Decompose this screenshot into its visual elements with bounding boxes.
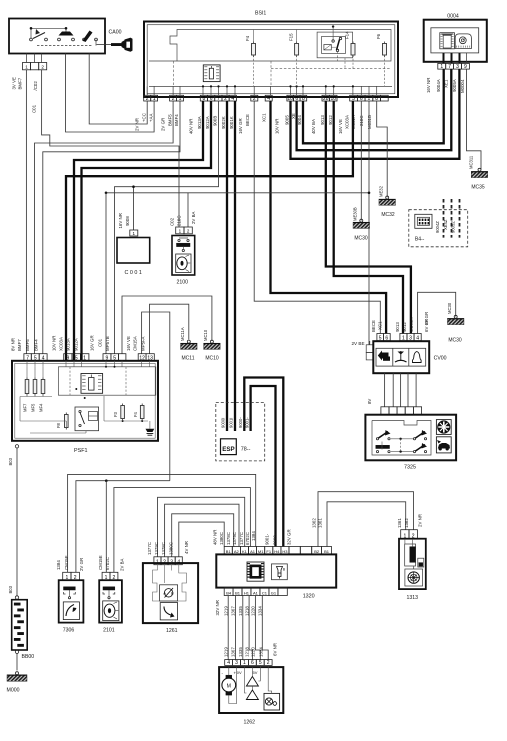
svg-text:16V NR: 16V NR bbox=[426, 78, 431, 93]
wire XE BSI to 0004 bbox=[297, 69, 452, 150]
svg-text:78--: 78-- bbox=[241, 447, 251, 453]
1261 sensor symbol bbox=[160, 585, 178, 601]
svg-text:BMF7: BMF7 bbox=[17, 339, 22, 351]
0004 pins 1 7 3 9 bbox=[438, 63, 446, 69]
svg-text:MC11: MC11 bbox=[182, 356, 195, 362]
PSF1 pins 12 13 bbox=[138, 354, 146, 361]
2100 pins 1 2 bbox=[176, 227, 184, 234]
svg-text:C01: C01 bbox=[98, 338, 103, 347]
BSI1 body outer bbox=[144, 22, 398, 98]
svg-text:9001I: 9001I bbox=[229, 418, 234, 428]
1320 bottom pins B4 B1 H1 A1 C1 G1 bbox=[224, 588, 233, 596]
7306 contact bbox=[64, 587, 76, 590]
svg-text:8V: 8V bbox=[367, 399, 372, 404]
wire 1384 1320-F1 to 7306 bbox=[68, 474, 256, 572]
svg-text:8: 8 bbox=[203, 96, 206, 102]
wire 1379C 1320-K1 to 1261 bbox=[165, 504, 239, 557]
svg-text:6: 6 bbox=[295, 96, 298, 102]
1320 injector icon bbox=[272, 564, 288, 580]
switch unit 7325 body bbox=[365, 415, 456, 461]
svg-text:9012A: 9012A bbox=[205, 116, 210, 129]
svg-text:2: 2 bbox=[267, 660, 270, 666]
svg-text:6: 6 bbox=[210, 96, 213, 102]
1313 pins 1 2 bbox=[401, 530, 409, 539]
wire CM15E branch bbox=[105, 481, 107, 573]
svg-text:1362: 1362 bbox=[312, 518, 317, 528]
wire M0004 to MC35 bbox=[467, 69, 482, 169]
BSI connector icon bbox=[203, 65, 220, 82]
wire BECE BSI to CV00 bbox=[254, 101, 380, 334]
svg-text:ME30B: ME30B bbox=[352, 207, 357, 221]
BSI pin 2 (BECE) bbox=[251, 95, 258, 101]
wire 9012 BSI to CV00 bbox=[334, 101, 403, 334]
7325 inner outline bbox=[372, 421, 431, 456]
svg-text:BMF4: BMF4 bbox=[174, 114, 179, 126]
BSI1 body inner line bbox=[147, 25, 395, 94]
svg-text:MP5FA: MP5FA bbox=[141, 337, 146, 351]
B4 connector icon bbox=[415, 214, 432, 228]
svg-text:210C: 210C bbox=[177, 216, 182, 227]
1262 motor bbox=[222, 678, 236, 692]
wire 1361 1320 to 1313 bbox=[327, 502, 406, 547]
switch link wires bbox=[31, 27, 66, 29]
svg-text:MC35: MC35 bbox=[471, 185, 485, 191]
1262 icon pump bbox=[264, 693, 280, 710]
svg-text:40V NR: 40V NR bbox=[189, 119, 194, 134]
svg-text:9013A: 9013A bbox=[66, 338, 71, 351]
svg-text:MCV0A: MCV0A bbox=[409, 317, 414, 332]
svg-text:32V GR: 32V GR bbox=[287, 529, 292, 545]
svg-text:9004: 9004 bbox=[297, 115, 302, 125]
svg-text:1380C: 1380C bbox=[219, 532, 224, 545]
svg-text:2100: 2100 bbox=[177, 280, 189, 286]
svg-text:9000-: 9000- bbox=[272, 533, 277, 545]
svg-text:1367: 1367 bbox=[231, 606, 236, 616]
BSI1 upper compartment bbox=[149, 30, 391, 62]
1313 gauge circle bbox=[405, 569, 423, 586]
svg-text:16V VE: 16V VE bbox=[126, 336, 131, 351]
svg-text:XC03A: XC03A bbox=[58, 337, 63, 351]
wire 1378C 1320-A2 to 1261 bbox=[172, 514, 234, 557]
svg-text:9005A: 9005A bbox=[452, 79, 457, 92]
connector C02 cells 1-2 bbox=[23, 63, 31, 70]
7306 pins 1 2 bbox=[63, 572, 71, 580]
PSF1 relay bbox=[75, 407, 99, 431]
svg-text:16V VE: 16V VE bbox=[338, 119, 343, 134]
wire 1362 1320 to 1313 bbox=[318, 492, 414, 547]
svg-text:M651B: M651B bbox=[367, 115, 372, 129]
wire 210C net vertical bbox=[368, 101, 370, 345]
svg-text:CV00: CV00 bbox=[434, 356, 447, 362]
svg-text:C02: C02 bbox=[170, 217, 175, 226]
svg-text:1218: 1218 bbox=[244, 647, 249, 657]
1313 resistor bar bbox=[405, 544, 416, 566]
svg-text:7306: 7306 bbox=[63, 628, 75, 634]
wire B03 down bbox=[16, 448, 18, 596]
wire 210C branch to PSF1 C01 and 2100 bbox=[106, 192, 369, 194]
svg-text:1219: 1219 bbox=[223, 606, 228, 616]
svg-text:1334: 1334 bbox=[258, 606, 263, 616]
svg-text:0V: 0V bbox=[237, 670, 242, 675]
svg-text:2: 2 bbox=[253, 96, 256, 102]
svg-text:MF7: MF7 bbox=[22, 403, 27, 412]
svg-text:C1: C1 bbox=[262, 590, 268, 595]
svg-text:7: 7 bbox=[217, 96, 220, 102]
svg-text:MF5: MF5 bbox=[30, 403, 35, 412]
svg-text:5V: 5V bbox=[253, 670, 258, 675]
svg-text:B1: B1 bbox=[235, 590, 241, 595]
battery link BB00 bbox=[12, 600, 28, 650]
svg-text:9000I: 9000I bbox=[221, 418, 226, 428]
svg-text:1379C: 1379C bbox=[232, 532, 237, 545]
wire C02 jog bbox=[42, 70, 179, 227]
wire +CC to CA00 bbox=[89, 54, 147, 125]
wire MC10 net from PSF1 bbox=[122, 296, 212, 354]
wire BMF7 CA00 to PSF1 bbox=[25, 70, 27, 354]
7325 thick bar bbox=[376, 445, 390, 448]
svg-text:2: 2 bbox=[146, 96, 149, 102]
svg-text:MC30: MC30 bbox=[448, 338, 462, 344]
svg-text:+CC: +CC bbox=[141, 113, 146, 122]
svg-text:0004: 0004 bbox=[447, 14, 459, 20]
wire M651B to MC32 bbox=[377, 101, 388, 197]
wire MCV0A CV00 to MC30 bbox=[418, 292, 456, 333]
1261 icon bbox=[160, 603, 177, 620]
wire BB00 to M000 bbox=[16, 654, 18, 671]
7325 icon window bbox=[436, 420, 451, 435]
svg-text:1: 1 bbox=[179, 96, 182, 102]
svg-text:6: 6 bbox=[251, 660, 254, 666]
wire 9002K BSI to ESP bbox=[226, 101, 228, 431]
svg-text:1378C: 1378C bbox=[226, 532, 231, 545]
svg-text:9001-: 9001- bbox=[265, 533, 270, 545]
0004 body bbox=[424, 20, 487, 62]
1320 pins B2 B1 bbox=[312, 547, 322, 555]
svg-text:1218: 1218 bbox=[244, 606, 249, 616]
svg-text:4V NR: 4V NR bbox=[184, 541, 189, 554]
wire MP5FA PSF1 to MC11 bbox=[150, 304, 189, 354]
svg-text:1384: 1384 bbox=[251, 531, 256, 541]
svg-text:2V GR: 2V GR bbox=[79, 558, 84, 571]
svg-text:28: 28 bbox=[323, 96, 329, 102]
svg-text:1377C: 1377C bbox=[239, 532, 244, 545]
svg-text:6V NR: 6V NR bbox=[273, 643, 278, 656]
PSF1 pins 9 5 blank bbox=[103, 354, 111, 361]
ground MC10 bbox=[210, 340, 213, 343]
wire 900B BSI to C001 bbox=[134, 101, 219, 230]
svg-text:9001-: 9001- bbox=[244, 417, 249, 428]
PSF1 connector icon bbox=[81, 374, 103, 394]
wire BMF4 BSI to PSF1 bbox=[43, 101, 180, 354]
svg-text:B03: B03 bbox=[8, 585, 13, 593]
svg-text:BECE: BECE bbox=[371, 320, 376, 332]
svg-text:1220: 1220 bbox=[251, 647, 256, 657]
svg-text:2V BA: 2V BA bbox=[119, 558, 124, 571]
1262 pins 4 3 1 6 5 2 bbox=[225, 660, 233, 666]
svg-text:1313: 1313 bbox=[407, 595, 419, 601]
0004 display icon bbox=[440, 33, 455, 49]
svg-text:F4: F4 bbox=[133, 411, 138, 417]
svg-text:A: A bbox=[163, 591, 166, 596]
svg-text:1220: 1220 bbox=[251, 606, 256, 616]
svg-text:9002K: 9002K bbox=[221, 116, 226, 129]
svg-text:1362: 1362 bbox=[404, 518, 409, 528]
svg-text:MC10: MC10 bbox=[203, 329, 208, 341]
wire to 2100 pin 2 bbox=[187, 193, 189, 227]
svg-text:2V BA: 2V BA bbox=[191, 211, 196, 224]
wire 9005 BSI to 0004 bbox=[291, 69, 460, 159]
BSI pins 2 1 (BMF5 BMF4) bbox=[170, 95, 177, 101]
switch contact 3 bbox=[83, 38, 86, 41]
wire 9001K BSI to ESP bbox=[234, 101, 236, 431]
svg-text:40V BA: 40V BA bbox=[311, 119, 316, 134]
key icon bbox=[97, 44, 112, 46]
ground MC11 bbox=[187, 340, 190, 343]
svg-text:900B: 900B bbox=[213, 116, 218, 126]
svg-text:1: 1 bbox=[243, 660, 246, 666]
C001 pin 1 bbox=[130, 230, 138, 236]
svg-text:1: 1 bbox=[368, 96, 371, 102]
fuse F8 bbox=[65, 415, 69, 428]
1320 IC icon bbox=[247, 562, 264, 581]
wire 9013 BSI to CV00 bbox=[326, 101, 411, 334]
svg-text:8V NR: 8V NR bbox=[10, 338, 15, 351]
connector C001 box bbox=[117, 238, 150, 264]
svg-text:CM15E: CM15E bbox=[98, 555, 103, 570]
7325 pin row bbox=[381, 407, 389, 415]
svg-text:1: 1 bbox=[153, 96, 156, 102]
svg-text:16V NR: 16V NR bbox=[118, 213, 123, 228]
wire 9013A BSI to PSF1 bbox=[74, 101, 203, 354]
ground MC30 upper bbox=[360, 219, 363, 222]
svg-text:4: 4 bbox=[227, 660, 230, 666]
svg-text:8: 8 bbox=[302, 96, 305, 102]
svg-text:C 0 0 1: C 0 0 1 bbox=[125, 270, 142, 276]
svg-text:2V GR: 2V GR bbox=[160, 118, 165, 131]
svg-text:/C02: /C02 bbox=[33, 81, 38, 91]
svg-text:48V NR: 48V NR bbox=[212, 530, 217, 545]
ground MC32 bbox=[386, 196, 389, 199]
fuse MF7 bbox=[25, 380, 29, 394]
svg-text:F14: F14 bbox=[345, 31, 350, 39]
fuse F15 in BSI bbox=[295, 44, 299, 56]
svg-text:6: 6 bbox=[360, 96, 363, 102]
7325 icon car bbox=[436, 437, 451, 453]
sensor 1261 body bbox=[143, 563, 198, 623]
fuse F14 in BSI bbox=[351, 44, 355, 56]
svg-text:6V GR: 6V GR bbox=[424, 319, 429, 332]
wire CM15A PSF1 down bbox=[142, 312, 170, 481]
7325 link lines bbox=[391, 438, 413, 440]
wire 9000- ESP to 1320 bbox=[244, 378, 283, 547]
0004 pin stubs bbox=[443, 53, 445, 63]
CV00 horn icon bbox=[413, 352, 422, 363]
1320 top pins B1 A2 K1 A1 M1 F1 H4 H3 bbox=[224, 547, 232, 555]
CV00 pins 5 6 bbox=[377, 334, 384, 341]
svg-text:2: 2 bbox=[172, 96, 175, 102]
2101 pins 1 2 bbox=[102, 572, 110, 580]
svg-text:9013A: 9013A bbox=[197, 116, 202, 129]
svg-text:BMF5: BMF5 bbox=[167, 114, 172, 126]
0004 inner box bbox=[431, 28, 479, 53]
7306 icon bbox=[63, 602, 79, 620]
1262 level sender triangles bbox=[246, 677, 258, 687]
svg-text:8: 8 bbox=[375, 96, 378, 102]
svg-text:9013: 9013 bbox=[395, 322, 400, 332]
svg-text:MP5TB: MP5TB bbox=[105, 336, 110, 351]
svg-text:1261: 1261 bbox=[166, 628, 178, 634]
svg-text:F8: F8 bbox=[56, 422, 61, 428]
1320 top pins blank bbox=[289, 547, 300, 555]
svg-text:XC1: XC1 bbox=[262, 113, 267, 122]
switch contact 2 bbox=[58, 38, 61, 41]
svg-text:9012A: 9012A bbox=[74, 338, 79, 351]
svg-text:2: 2 bbox=[41, 65, 44, 70]
svg-text:BMF5: BMF5 bbox=[25, 339, 30, 351]
BSI pins 8 6 7 2 4 (40V NR) bbox=[200, 95, 207, 101]
svg-text:2V NR: 2V NR bbox=[418, 514, 423, 527]
svg-text:9008: 9008 bbox=[125, 216, 130, 226]
svg-text:XC1: XC1 bbox=[378, 321, 383, 330]
BSI pin 4 (XC1) bbox=[265, 95, 272, 101]
svg-text:7325: 7325 bbox=[404, 465, 416, 471]
svg-text:4: 4 bbox=[231, 96, 234, 102]
fuse MF5 bbox=[33, 380, 37, 394]
BSI1 internal dashed partition bbox=[271, 68, 391, 70]
svg-text:4: 4 bbox=[267, 96, 270, 102]
wire 9001- ESP to 1320 bbox=[251, 386, 276, 547]
CV00 left connector bbox=[366, 345, 373, 353]
switch unit 2100 box bbox=[172, 236, 195, 276]
svg-text:9012: 9012 bbox=[402, 322, 407, 332]
svg-text:2V BE: 2V BE bbox=[352, 341, 365, 346]
wire XC03A BSI to PSF1 bbox=[66, 101, 353, 354]
connector B4 dashed box bbox=[409, 210, 468, 247]
1313 float icon bbox=[418, 558, 424, 567]
relay in BSI bbox=[317, 32, 353, 58]
svg-text:3V VE: 3V VE bbox=[12, 77, 17, 90]
svg-text:BB00: BB00 bbox=[22, 654, 35, 660]
svg-text:1: 1 bbox=[440, 64, 443, 70]
svg-text:C01: C01 bbox=[31, 104, 36, 113]
fuse MF4 bbox=[41, 380, 45, 394]
svg-text:B4: B4 bbox=[226, 590, 232, 595]
wire 1380C 1320-B1 to 1261 bbox=[179, 522, 224, 557]
svg-text:9000-: 9000- bbox=[238, 417, 243, 428]
PSF1 inner compartment bbox=[58, 367, 155, 395]
svg-text:10: 10 bbox=[330, 96, 336, 102]
svg-text:M000: M000 bbox=[7, 688, 20, 694]
ground MC30 lower bbox=[454, 315, 457, 318]
svg-text:9012: 9012 bbox=[328, 115, 333, 125]
svg-text:F3: F3 bbox=[113, 411, 118, 417]
2101 contact bbox=[103, 587, 115, 590]
B4 dashed wires bbox=[443, 199, 445, 238]
wires 1320 to 1262 bbox=[227, 596, 229, 660]
node B03 top circle bbox=[15, 445, 18, 448]
svg-text:6702C: 6702C bbox=[245, 532, 250, 545]
svg-text:9004Z: 9004Z bbox=[435, 221, 440, 233]
BB00 bottom circle bbox=[15, 650, 18, 653]
7325 switch paddles bbox=[376, 438, 378, 440]
CV00 wiper-wash icon bbox=[378, 351, 389, 361]
svg-text:MF4: MF4 bbox=[38, 403, 43, 412]
svg-text:1219: 1219 bbox=[223, 647, 228, 657]
switch contact 1 bbox=[30, 38, 33, 41]
svg-text:A1: A1 bbox=[253, 590, 259, 595]
svg-text:6702C: 6702C bbox=[105, 557, 110, 570]
svg-text:CM15A: CM15A bbox=[133, 336, 138, 351]
wire 9012A BSI to PSF1 bbox=[82, 101, 212, 354]
svg-text:BMF7: BMF7 bbox=[18, 77, 23, 89]
svg-text:1334: 1334 bbox=[259, 647, 264, 657]
svg-text:10V NR: 10V NR bbox=[52, 336, 57, 351]
svg-text:2V NR: 2V NR bbox=[135, 118, 140, 131]
svg-text:3: 3 bbox=[456, 64, 459, 70]
fuse F3 PSF1 bbox=[121, 406, 125, 419]
svg-text:2: 2 bbox=[224, 96, 227, 102]
wire CM15A branch band bbox=[76, 481, 170, 573]
svg-text:F15: F15 bbox=[288, 33, 293, 41]
svg-text:1380C: 1380C bbox=[168, 542, 173, 555]
lamp unit 2101 body bbox=[99, 580, 122, 622]
svg-text:MC11A: MC11A bbox=[180, 327, 185, 341]
BSI pins 28 10 (40V BA) bbox=[322, 95, 330, 101]
svg-text:1379C: 1379C bbox=[154, 542, 159, 555]
wires CV00 to 7325 bbox=[384, 373, 386, 407]
ignition switch CA00 box bbox=[9, 19, 105, 54]
CV00 icon row bbox=[376, 348, 426, 366]
svg-text:ESP: ESP bbox=[222, 446, 234, 453]
svg-text:CM15F: CM15F bbox=[64, 555, 69, 570]
ecu 1320 body bbox=[216, 554, 336, 587]
2101 icon eye bbox=[103, 601, 119, 621]
wire BMF5 BSI to PSF1 bbox=[35, 101, 174, 354]
2100 switch contacts bbox=[178, 239, 180, 241]
BSI pins 3 6 1 8 (16V VE) bbox=[350, 95, 358, 101]
svg-text:1: 1 bbox=[25, 65, 28, 70]
svg-text:F4: F4 bbox=[245, 35, 250, 41]
svg-text:10V NR: 10V NR bbox=[275, 119, 280, 134]
CV00 wiper icon bbox=[395, 360, 407, 362]
wire MP5TB to C001 net bbox=[115, 187, 134, 354]
svg-text:XE4Z: XE4Z bbox=[443, 219, 448, 230]
fuel gauge 1313 body bbox=[399, 539, 426, 589]
ESP logo box bbox=[221, 439, 237, 455]
BSI1 internal bus bbox=[149, 85, 392, 87]
fuse F6 in BSI bbox=[383, 44, 387, 56]
fuse F4 in BSI bbox=[252, 44, 256, 56]
svg-text:1262: 1262 bbox=[244, 720, 256, 726]
wire +AA to CA00 bbox=[66, 54, 155, 133]
PSF1 ground symbol bbox=[149, 421, 151, 429]
PSF1 internal bus lines bbox=[26, 396, 28, 397]
BSI pins 10 6 8 (10V NR) bbox=[287, 95, 294, 101]
svg-text:1367: 1367 bbox=[231, 647, 236, 657]
wire 6702C 1320-M1 to 2101 bbox=[114, 488, 251, 573]
fuse F4 PSF1 bbox=[140, 406, 144, 419]
1261 internal outline bbox=[153, 565, 187, 601]
fuel pump 1262 body bbox=[219, 667, 283, 713]
svg-text:16V GR: 16V GR bbox=[238, 118, 243, 134]
svg-text:CA00: CA00 bbox=[109, 30, 122, 36]
svg-text:PSF1: PSF1 bbox=[74, 448, 87, 454]
fusebox PSF1 body bbox=[12, 361, 158, 441]
svg-text:B4--: B4-- bbox=[415, 237, 425, 243]
svg-text:B: B bbox=[171, 591, 174, 596]
svg-text:1335: 1335 bbox=[238, 647, 243, 657]
svg-text:9005Z: 9005Z bbox=[451, 221, 456, 233]
